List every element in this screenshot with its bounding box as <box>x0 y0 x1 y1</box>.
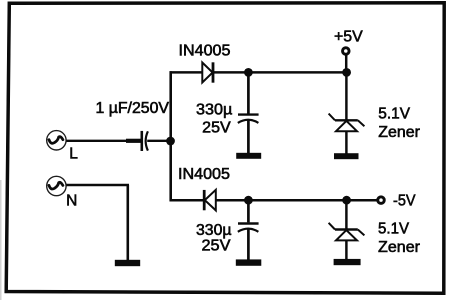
junction node A <box>166 137 175 146</box>
ac source terminal L <box>47 131 66 150</box>
-5V output terminal <box>378 197 385 204</box>
ac source terminal N <box>47 176 66 195</box>
svg-text:25V: 25V <box>202 120 231 137</box>
diode D1 (IN4005) <box>202 62 213 82</box>
scan artifact left edge <box>0 180 2 300</box>
ground below C3 <box>236 259 261 265</box>
ground below Z1 <box>334 153 359 159</box>
svg-text:330µ: 330µ <box>196 101 232 118</box>
svg-text:+5V: +5V <box>334 28 363 45</box>
junction node C (+5V node) <box>342 68 351 77</box>
wire L to capacitor C1 <box>67 140 141 142</box>
zener diode Z1 (5.1V) <box>329 114 365 132</box>
svg-text:25V: 25V <box>202 238 232 255</box>
svg-text:IN4005: IN4005 <box>179 43 231 60</box>
wire node D down to capacitor C3 <box>247 200 250 222</box>
zener diode Z2 (5.1V) <box>329 223 365 241</box>
wire D2 to node D <box>216 199 347 202</box>
svg-text:N: N <box>66 192 77 209</box>
wire C3 to ground <box>247 228 250 260</box>
wire Z1 to ground <box>345 131 348 154</box>
ground below N wire <box>115 260 140 266</box>
svg-text:1 µF/250V: 1 µF/250V <box>96 100 170 117</box>
wire node B down to capacitor C2 <box>247 72 250 113</box>
wire D1 to node B <box>213 71 347 74</box>
wire C1 to node A <box>147 140 171 142</box>
svg-text:Zener: Zener <box>378 239 420 256</box>
svg-text:L: L <box>69 146 78 163</box>
capacitor C1 (1uF/250V) <box>142 131 148 151</box>
svg-text:Zener: Zener <box>378 124 420 141</box>
wire bottom rail to diode D2 <box>170 199 204 202</box>
wire node E down to zener Z2 <box>345 200 348 229</box>
wire node E to -5V terminal <box>347 199 378 202</box>
svg-text:5.1V: 5.1V <box>378 106 410 123</box>
+5V output terminal <box>343 48 350 55</box>
svg-text:IN4005: IN4005 <box>178 166 230 183</box>
svg-text:-5V: -5V <box>393 192 416 209</box>
junction node B <box>244 68 253 77</box>
capacitor C2 (330u/25V) <box>238 115 259 123</box>
wire Z2 to ground <box>345 240 348 259</box>
capacitor C3 (330u/25V) <box>238 224 259 232</box>
wire node C up to +5V terminal <box>345 55 348 73</box>
wire N to ground corner <box>67 185 130 260</box>
wire C2 to ground <box>247 120 250 154</box>
wire top rail to diode D1 <box>170 71 204 74</box>
diode D2 (IN4005) <box>204 190 216 211</box>
ground below C2 <box>236 153 261 159</box>
ground below Z2 <box>334 259 361 265</box>
svg-text:5.1V: 5.1V <box>378 220 410 237</box>
wire vertical bus node A up and down <box>169 71 172 201</box>
wire node C down to zener Z1 <box>345 72 348 119</box>
junction node D <box>244 196 253 205</box>
junction node E (-5V node) <box>342 196 351 205</box>
